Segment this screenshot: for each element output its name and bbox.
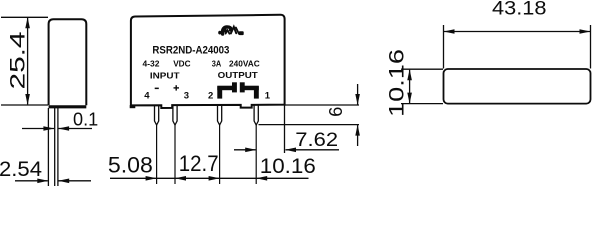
- dim 25.4 dimension line with arrows: [25, 17, 30, 105]
- dim 10.16 bottom extension line: [401, 103, 443, 105]
- svg-text:OUTPUT: OUTPUT: [218, 71, 258, 80]
- svg-text:6: 6: [326, 107, 346, 117]
- polarity minus: [155, 88, 159, 90]
- body right edge extension line: [284, 105, 286, 153]
- svg-text:4: 4: [144, 90, 150, 101]
- front body bottom-left corner foot: [130, 105, 136, 108]
- svg-text:3A: 3A: [212, 58, 222, 68]
- pin 2 extension line: [219, 125, 221, 184]
- dim 43.18 dimension line with arrows: [444, 29, 591, 34]
- brand logo squiggle: [218, 27, 244, 35]
- top-view body: [444, 69, 591, 104]
- svg-text:25.4: 25.4: [6, 31, 30, 89]
- svg-text:RSR2ND-A24003: RSR2ND-A24003: [152, 45, 229, 57]
- pin 3 extension line: [174, 125, 176, 184]
- svg-text:2.54: 2.54: [0, 158, 42, 181]
- side-view body outline: [49, 19, 87, 107]
- dim 25.4 bottom extension line: [1, 104, 48, 106]
- dim 7.62 dimension line with outside arrows: [234, 148, 339, 153]
- extension line from body left edge down: [47, 108, 49, 186]
- side-view pin (two lines to image bottom): [55, 108, 58, 186]
- svg-text:10.16: 10.16: [260, 155, 316, 178]
- svg-text:0.1: 0.1: [73, 109, 98, 129]
- bottom dimension line (5.08 / 12.7 / 10.16): [110, 176, 309, 181]
- svg-text:VDC: VDC: [173, 58, 190, 68]
- output contact symbol: [217, 82, 258, 98]
- dim 25.4 top extension line: [1, 16, 48, 18]
- front body outline with bottom standoff bumps: [131, 15, 285, 108]
- dim 0.1 arrows: [22, 126, 92, 131]
- pin 2: [218, 105, 222, 125]
- svg-text:5.08: 5.08: [108, 153, 153, 178]
- dim 6 dimension line with outside arrows: [355, 84, 360, 146]
- dim 43.18 right extension line: [590, 25, 592, 69]
- dim 10.16 top extension line: [401, 68, 443, 70]
- svg-text:12.7: 12.7: [179, 151, 219, 176]
- svg-text:240VAC: 240VAC: [229, 58, 260, 68]
- dim 2.54 dimension line with arrows: [15, 179, 91, 184]
- svg-text:10.16: 10.16: [385, 49, 409, 117]
- svg-text:43.18: 43.18: [492, 0, 547, 19]
- polarity plus: [174, 85, 180, 90]
- dim 6 top extension line: [285, 104, 359, 106]
- svg-text:3: 3: [184, 90, 189, 101]
- svg-text:2: 2: [208, 90, 213, 101]
- svg-text:INPUT: INPUT: [150, 71, 180, 80]
- pin 3: [173, 105, 177, 125]
- dim 6 bottom extension line (pin tip level): [259, 124, 360, 126]
- pin 1 extension line: [255, 125, 257, 184]
- pin 1: [254, 105, 258, 125]
- svg-text:1: 1: [265, 90, 271, 101]
- dim 43.18 left extension line: [443, 25, 445, 69]
- pin 4: [155, 105, 159, 125]
- svg-text:7.62: 7.62: [295, 130, 338, 151]
- dim 10.16 dimension line with arrows: [407, 69, 412, 103]
- svg-text:4-32: 4-32: [143, 58, 160, 68]
- pin 4 extension line: [156, 125, 158, 184]
